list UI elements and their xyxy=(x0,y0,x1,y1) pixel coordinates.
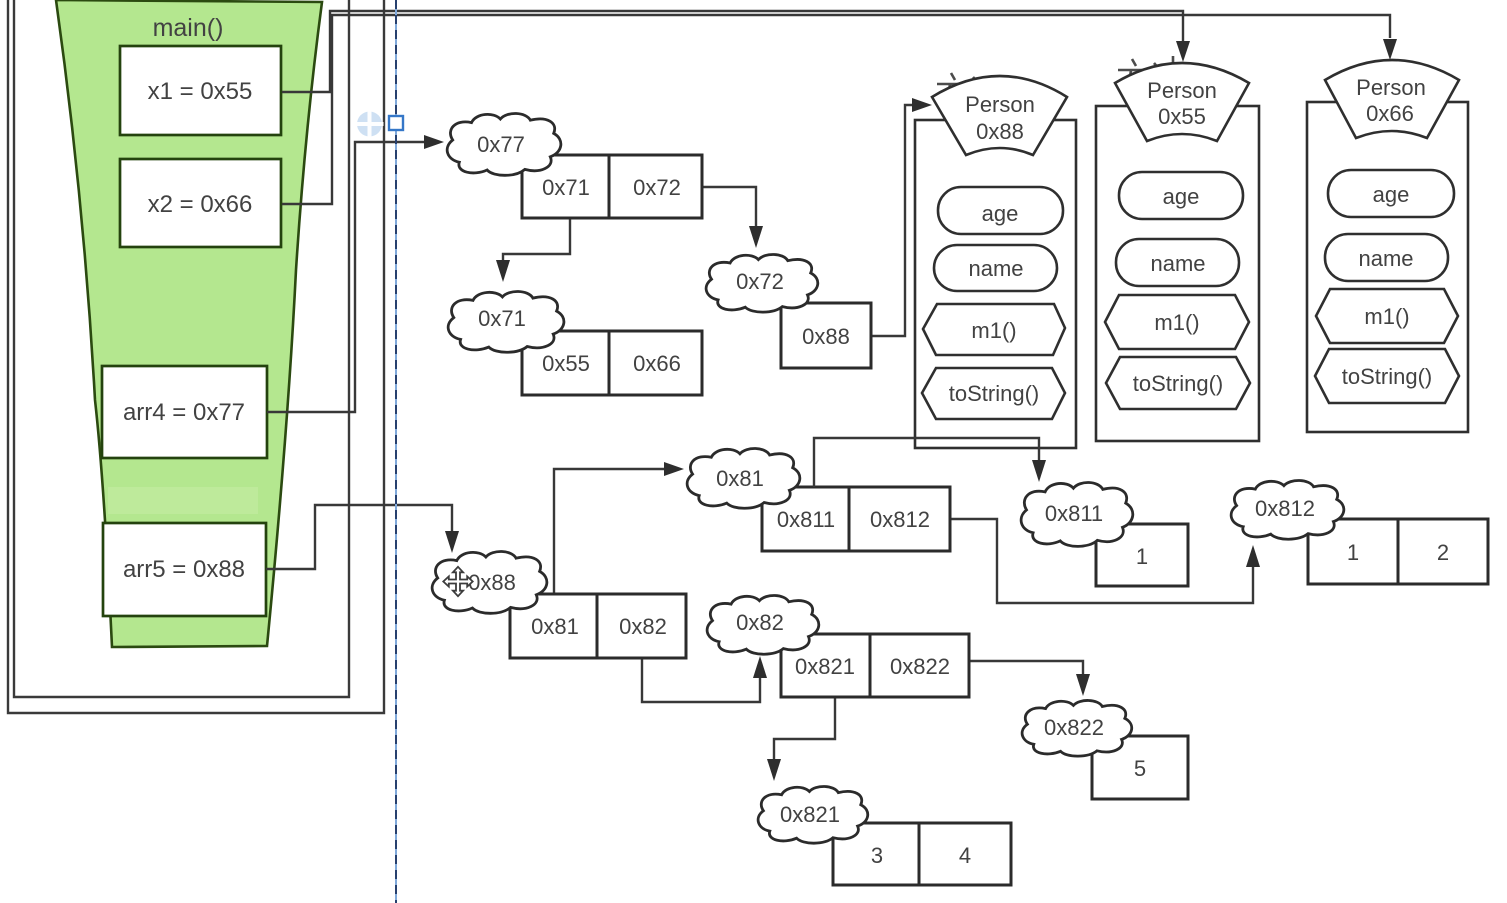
svg-text:0x72: 0x72 xyxy=(633,175,681,200)
svg-text:name: name xyxy=(1150,251,1205,276)
svg-text:toString(): toString() xyxy=(1133,371,1223,396)
svg-text:0x812: 0x812 xyxy=(870,507,930,532)
svg-text:0x821: 0x821 xyxy=(795,654,855,679)
svg-text:0x81: 0x81 xyxy=(716,466,764,491)
svg-text:0x71: 0x71 xyxy=(542,175,590,200)
svg-text:0x88: 0x88 xyxy=(468,570,516,595)
svg-text:0x81: 0x81 xyxy=(531,614,579,639)
svg-text:0x811: 0x811 xyxy=(1045,501,1103,526)
svg-text:arr4 = 0x77: arr4 = 0x77 xyxy=(123,399,245,426)
svg-text:age: age xyxy=(1373,182,1410,207)
svg-text:0x822: 0x822 xyxy=(890,654,950,679)
svg-text:0x82: 0x82 xyxy=(619,614,667,639)
svg-text:0x66: 0x66 xyxy=(633,351,681,376)
svg-text:0x66: 0x66 xyxy=(1366,101,1414,126)
svg-text:Person: Person xyxy=(1356,75,1426,100)
svg-text:5: 5 xyxy=(1134,756,1146,781)
svg-text:0x55: 0x55 xyxy=(542,351,590,376)
svg-text:toString(): toString() xyxy=(1342,364,1432,389)
svg-text:name: name xyxy=(968,256,1023,281)
svg-text:toString(): toString() xyxy=(949,381,1039,406)
svg-text:2: 2 xyxy=(1437,540,1449,565)
svg-text:arr5 = 0x88: arr5 = 0x88 xyxy=(123,556,245,583)
svg-text:0x822: 0x822 xyxy=(1044,715,1104,740)
svg-text:0x88: 0x88 xyxy=(802,324,850,349)
svg-text:0x821: 0x821 xyxy=(780,802,840,827)
svg-text:0x811: 0x811 xyxy=(777,507,835,532)
svg-text:m1(): m1() xyxy=(1364,304,1409,329)
svg-text:0x82: 0x82 xyxy=(736,610,784,635)
svg-text:0x72: 0x72 xyxy=(736,269,784,294)
svg-text:3: 3 xyxy=(871,843,883,868)
svg-text:0x812: 0x812 xyxy=(1255,496,1315,521)
svg-text:0x77: 0x77 xyxy=(477,132,525,157)
svg-text:4: 4 xyxy=(959,843,971,868)
svg-text:m1(): m1() xyxy=(1154,310,1199,335)
svg-text:0x71: 0x71 xyxy=(478,306,526,331)
svg-text:0x88: 0x88 xyxy=(976,119,1024,144)
svg-text:0x55: 0x55 xyxy=(1158,104,1206,129)
svg-text:age: age xyxy=(982,201,1019,226)
svg-text:1: 1 xyxy=(1136,544,1148,569)
svg-text:main(): main() xyxy=(153,14,224,42)
svg-text:m1(): m1() xyxy=(971,318,1016,343)
svg-text:x1 = 0x55: x1 = 0x55 xyxy=(148,78,253,105)
svg-text:Person: Person xyxy=(1147,78,1217,103)
svg-text:x2 = 0x66: x2 = 0x66 xyxy=(148,191,253,218)
svg-text:name: name xyxy=(1358,246,1413,271)
svg-text:Person: Person xyxy=(965,92,1035,117)
svg-text:age: age xyxy=(1163,184,1200,209)
svg-text:1: 1 xyxy=(1347,540,1359,565)
